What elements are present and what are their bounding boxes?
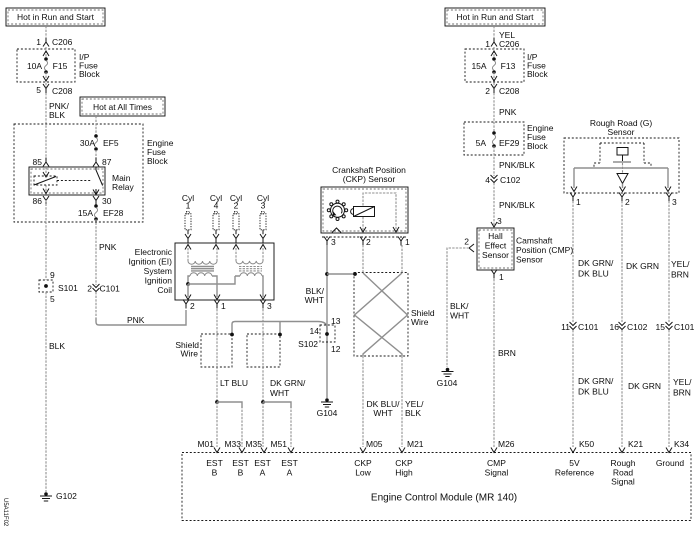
svg-text:CKP: CKP [395, 458, 413, 468]
svg-text:Electronic: Electronic [135, 247, 173, 257]
svg-text:14: 14 [310, 326, 320, 336]
svg-text:K34: K34 [674, 439, 689, 449]
svg-text:Ignition: Ignition [145, 276, 173, 286]
svg-text:Signal: Signal [611, 477, 635, 487]
svg-text:11: 11 [561, 322, 570, 332]
svg-text:DK GRN/: DK GRN/ [578, 258, 614, 268]
svg-text:Ignition (EI): Ignition (EI) [129, 257, 173, 267]
svg-text:Block: Block [79, 69, 101, 79]
svg-text:System: System [144, 266, 172, 276]
svg-text:1: 1 [485, 39, 490, 49]
svg-text:13: 13 [331, 316, 341, 326]
svg-text:YEL/: YEL/ [673, 377, 692, 387]
svg-text:G102: G102 [56, 491, 77, 501]
svg-text:EST: EST [281, 458, 298, 468]
svg-text:Block: Block [527, 141, 549, 151]
svg-text:PNK: PNK [127, 315, 145, 325]
svg-text:4: 4 [485, 175, 490, 185]
svg-text:M21: M21 [407, 439, 424, 449]
svg-text:30: 30 [102, 196, 112, 206]
svg-text:Coil: Coil [157, 285, 172, 295]
svg-text:S102: S102 [298, 339, 318, 349]
svg-text:2: 2 [87, 284, 92, 294]
svg-text:1: 1 [405, 237, 410, 247]
svg-text:EST: EST [254, 458, 271, 468]
svg-text:2: 2 [625, 197, 630, 207]
svg-text:1: 1 [186, 201, 191, 211]
svg-text:Engine Control Module (MR 140): Engine Control Module (MR 140) [371, 493, 517, 504]
svg-text:PNK: PNK [499, 107, 517, 117]
svg-text:B: B [212, 468, 218, 478]
svg-text:1: 1 [36, 37, 41, 47]
svg-text:A: A [260, 468, 266, 478]
svg-text:M01: M01 [197, 439, 214, 449]
svg-text:WHT: WHT [450, 311, 469, 321]
svg-text:WHT: WHT [305, 295, 324, 305]
svg-text:Wire: Wire [411, 317, 429, 327]
svg-text:30A: 30A [80, 138, 95, 148]
svg-text:S101: S101 [58, 283, 78, 293]
svg-text:Low: Low [355, 468, 371, 478]
svg-text:PNK: PNK [99, 242, 117, 252]
svg-text:9: 9 [50, 270, 55, 280]
svg-text:WHT: WHT [270, 388, 289, 398]
svg-text:2: 2 [190, 301, 195, 311]
svg-text:DK GRN/: DK GRN/ [578, 376, 614, 386]
svg-text:C102: C102 [500, 175, 521, 185]
svg-text:2: 2 [464, 237, 469, 247]
svg-text:BRN: BRN [498, 348, 516, 358]
svg-text:DK BLU: DK BLU [578, 269, 609, 279]
svg-text:Signal: Signal [485, 468, 509, 478]
svg-text:M05: M05 [366, 439, 383, 449]
svg-text:2: 2 [234, 201, 239, 211]
svg-text:3: 3 [261, 201, 266, 211]
svg-text:Sensor: Sensor [608, 127, 635, 137]
svg-text:85: 85 [33, 157, 43, 167]
svg-text:Ground: Ground [656, 458, 685, 468]
svg-text:10A: 10A [27, 61, 42, 71]
svg-text:Sensor: Sensor [516, 255, 543, 265]
svg-text:2: 2 [366, 237, 371, 247]
svg-text:Relay: Relay [112, 182, 134, 192]
svg-text:BRN: BRN [673, 388, 691, 398]
svg-text:DK BLU: DK BLU [578, 387, 609, 397]
svg-text:F13: F13 [501, 61, 516, 71]
svg-text:High: High [395, 468, 413, 478]
svg-text:M33: M33 [224, 439, 241, 449]
svg-text:86: 86 [33, 196, 43, 206]
svg-text:DK GRN: DK GRN [628, 381, 661, 391]
svg-text:C101: C101 [674, 322, 695, 332]
svg-text:EST: EST [206, 458, 223, 468]
svg-text:5: 5 [36, 85, 41, 95]
svg-text:M35: M35 [245, 439, 262, 449]
svg-text:2: 2 [485, 86, 490, 96]
svg-text:Hot at All Times: Hot at All Times [93, 102, 152, 112]
svg-text:C206: C206 [52, 37, 73, 47]
svg-text:Hot in Run and Start: Hot in Run and Start [456, 12, 534, 22]
svg-text:5A: 5A [476, 138, 487, 148]
svg-text:87: 87 [102, 157, 112, 167]
svg-text:EST: EST [232, 458, 249, 468]
svg-text:15: 15 [656, 322, 666, 332]
svg-text:LT BLU: LT BLU [220, 378, 248, 388]
svg-text:(CKP) Sensor: (CKP) Sensor [343, 174, 396, 184]
svg-text:1: 1 [576, 197, 581, 207]
svg-text:G104: G104 [317, 408, 338, 418]
svg-text:1: 1 [221, 301, 226, 311]
svg-text:Hot in Run and Start: Hot in Run and Start [17, 12, 95, 22]
svg-text:Camshaft: Camshaft [516, 236, 553, 246]
svg-text:BLK/: BLK/ [450, 301, 469, 311]
svg-text:PNK/BLK: PNK/BLK [499, 160, 535, 170]
svg-text:EF28: EF28 [103, 208, 124, 218]
svg-text:M51: M51 [270, 439, 287, 449]
svg-text:F15: F15 [53, 61, 68, 71]
svg-text:C208: C208 [52, 86, 73, 96]
svg-text:C102: C102 [627, 322, 648, 332]
svg-text:G104: G104 [437, 378, 458, 388]
svg-text:12: 12 [331, 344, 341, 354]
svg-text:DK GRN/: DK GRN/ [270, 378, 306, 388]
svg-text:Hall: Hall [488, 231, 503, 241]
svg-text:C206: C206 [499, 39, 520, 49]
svg-text:U5A11F02: U5A11F02 [2, 498, 8, 527]
svg-text:3: 3 [267, 301, 272, 311]
svg-text:M26: M26 [498, 439, 515, 449]
svg-text:3: 3 [672, 197, 677, 207]
svg-text:Effect: Effect [485, 241, 507, 251]
svg-text:K50: K50 [579, 439, 594, 449]
svg-text:EF5: EF5 [103, 138, 119, 148]
svg-text:1: 1 [499, 272, 504, 282]
svg-text:15A: 15A [471, 61, 486, 71]
svg-text:B: B [238, 468, 244, 478]
svg-text:CKP: CKP [354, 458, 372, 468]
svg-text:A: A [287, 468, 293, 478]
svg-text:BLK: BLK [405, 408, 421, 418]
svg-text:5: 5 [50, 294, 55, 304]
svg-text:PNK/BLK: PNK/BLK [499, 200, 535, 210]
svg-text:15A: 15A [78, 208, 93, 218]
svg-text:Rough: Rough [610, 458, 635, 468]
svg-text:Block: Block [147, 156, 169, 166]
svg-text:Wire: Wire [181, 349, 199, 359]
svg-text:DK GRN: DK GRN [626, 261, 659, 271]
svg-text:YEL/: YEL/ [671, 259, 690, 269]
svg-text:16: 16 [610, 322, 620, 332]
svg-text:4: 4 [214, 201, 219, 211]
svg-text:3: 3 [331, 237, 336, 247]
svg-text:Position (CMP): Position (CMP) [516, 245, 573, 255]
svg-text:Block: Block [527, 69, 549, 79]
svg-text:K21: K21 [628, 439, 643, 449]
svg-text:Reference: Reference [555, 468, 594, 478]
svg-text:EF29: EF29 [499, 138, 520, 148]
svg-text:C208: C208 [499, 86, 520, 96]
svg-text:C101: C101 [100, 284, 121, 294]
svg-text:Sensor: Sensor [482, 250, 509, 260]
svg-text:3: 3 [497, 216, 502, 226]
svg-text:BLK: BLK [49, 110, 65, 120]
svg-text:BRN: BRN [671, 270, 689, 280]
svg-text:CMP: CMP [487, 458, 506, 468]
svg-text:WHT: WHT [373, 408, 392, 418]
svg-text:5V: 5V [569, 458, 580, 468]
svg-text:C101: C101 [578, 322, 599, 332]
svg-text:BLK: BLK [49, 341, 65, 351]
